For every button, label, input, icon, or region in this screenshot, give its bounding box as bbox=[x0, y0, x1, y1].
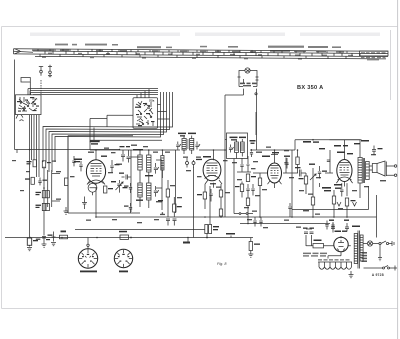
tone cap C54 bbox=[318, 166, 327, 187]
voltage selector labels bbox=[362, 252, 368, 262]
resistor R5 bbox=[46, 191, 49, 198]
dial scale band bbox=[14, 49, 389, 59]
output transformer T2 bbox=[354, 140, 369, 198]
V2 cathode parts bbox=[197, 184, 213, 209]
oscillator coil L11 bbox=[161, 150, 164, 178]
tone pot bbox=[309, 164, 316, 185]
svg-text:S2a: S2a bbox=[149, 99, 155, 103]
earth terminal bbox=[48, 65, 52, 77]
bleed-through ghost row bbox=[30, 33, 380, 37]
IF2 side labels bbox=[250, 140, 256, 144]
capacitor C4 bbox=[38, 178, 47, 186]
S1 feet bbox=[16, 115, 24, 121]
svg-text:A 9728: A 9728 bbox=[372, 273, 384, 277]
V4 cathode bits bbox=[340, 183, 347, 196]
mains switch and plug bbox=[364, 241, 395, 261]
padder capacitor C15 bbox=[119, 173, 131, 180]
rail resistor R51 bbox=[119, 231, 132, 240]
HT supply line bbox=[90, 140, 360, 150]
capacitor C8 bbox=[79, 161, 82, 171]
rectifier tube V5 UY41 bbox=[334, 231, 348, 256]
cathode ground arrows bbox=[337, 202, 357, 206]
left bottom cluster C90 bbox=[27, 238, 40, 251]
det bottom resistor bbox=[246, 196, 249, 217]
trimmer C16 bbox=[154, 163, 159, 174]
resistor R29 bbox=[311, 184, 314, 217]
triode grid circle bbox=[88, 183, 97, 195]
oscillator coil L9 bbox=[138, 183, 142, 197]
resistor R1 bbox=[27, 160, 37, 167]
AVC caps bbox=[246, 184, 254, 196]
AF line to V3 bbox=[253, 112, 267, 173]
aerial coil unit S1 bbox=[16, 95, 42, 115]
cathode resistor R9 bbox=[104, 186, 114, 193]
IF1 trimmers bbox=[176, 142, 200, 150]
dial tick marks bbox=[38, 49, 352, 59]
S2 box side stubs bbox=[158, 105, 170, 120]
bypass capacitor C98 with ground bbox=[46, 232, 56, 246]
IF transformer 1 bbox=[178, 133, 196, 154]
IF amp tube V2 UF41 bbox=[196, 150, 222, 188]
grid resistor R8 bbox=[65, 178, 68, 186]
rail component C97 bbox=[60, 231, 68, 239]
svg-text:Fig. 8: Fig. 8 bbox=[217, 262, 227, 266]
oscillator coil unit S2 bbox=[133, 98, 158, 128]
upper chassis rail bbox=[68, 136, 140, 213]
coupling capacitor C52 bbox=[292, 167, 306, 177]
heater labels bbox=[303, 253, 350, 261]
oscillator coil L10 bbox=[147, 183, 151, 200]
detector cluster bbox=[237, 156, 251, 172]
padder C19 bbox=[124, 203, 132, 213]
aerial lead-in bbox=[39, 67, 43, 95]
loudspeaker bbox=[369, 161, 385, 176]
rail junction dots bbox=[220, 216, 348, 218]
bias resistor R53 bbox=[248, 238, 260, 258]
detector return wire bbox=[234, 159, 253, 215]
dropper resistor to fig8 bbox=[205, 186, 219, 238]
grid stopper cluster bbox=[322, 150, 342, 191]
valve socket B2 UL41 bbox=[114, 249, 132, 272]
det/AF tube V3 UAF42 bbox=[262, 150, 290, 188]
PSU fuse resistor R56 bbox=[306, 240, 329, 248]
rail y229 bbox=[75, 229, 205, 231]
dropper cluster bbox=[225, 79, 257, 217]
dial right table text bbox=[361, 52, 386, 60]
IF2 trimmer caps bbox=[250, 149, 253, 157]
mixer tube V1 UCH42 bbox=[74, 150, 107, 187]
junction dots bbox=[29, 139, 314, 238]
main smoothing rail bbox=[5, 237, 253, 239]
oscillator coil L8 bbox=[147, 155, 151, 172]
V2 screen resistor bbox=[219, 184, 222, 209]
IF1 return vertical bbox=[176, 150, 194, 238]
IF1 secondary circles bbox=[186, 158, 196, 168]
nested band-switch loop wires bbox=[43, 92, 173, 172]
dial lamp circuit bbox=[238, 68, 259, 87]
resistor R2 bbox=[42, 161, 51, 168]
decoupling cap C55 bbox=[288, 203, 291, 217]
aerial input step wire bbox=[15, 60, 31, 150]
svg-text:BX 350 A: BX 350 A bbox=[297, 85, 323, 91]
oscillator coil L7 bbox=[138, 155, 142, 170]
AF grid resistor R28 bbox=[299, 173, 308, 194]
osc resistors right bbox=[166, 180, 176, 217]
socket B1 top pin terminal bbox=[87, 238, 89, 247]
osc caps bottom bbox=[166, 219, 177, 226]
label 1.7k bbox=[226, 233, 235, 238]
left drop wires bbox=[17, 115, 60, 238]
dial scale text specks bbox=[32, 44, 353, 60]
PSU connecting wires bbox=[328, 246, 351, 259]
screen bypass C10 bbox=[110, 160, 119, 173]
padder C18 bbox=[124, 183, 132, 193]
AF extra parts bbox=[285, 150, 299, 173]
AVC line bbox=[15, 149, 114, 151]
PSU top caps bbox=[329, 220, 349, 233]
pot top cap bbox=[120, 146, 131, 163]
detector resistor R22 bbox=[235, 182, 244, 198]
V4 cathode resistor bbox=[345, 198, 355, 217]
V3 cathode resistor bbox=[258, 173, 261, 217]
PSU wiring left bbox=[306, 229, 312, 246]
V4 grid resistor bbox=[332, 190, 335, 217]
plate supply line bbox=[303, 140, 362, 150]
left bottom cluster C91 bbox=[42, 233, 53, 247]
resistor R7 bbox=[46, 203, 49, 210]
grid components under tube bbox=[82, 187, 96, 217]
38 label bbox=[183, 238, 190, 244]
caps under AF bbox=[325, 221, 334, 230]
valve socket B1 UCH42 bbox=[78, 247, 97, 273]
output tube V4 UL41 bbox=[336, 140, 353, 187]
detector resistor R21 bbox=[246, 174, 256, 182]
mains transformer T3 bbox=[352, 226, 363, 269]
ground tap bbox=[64, 207, 69, 214]
resistor R4 bbox=[36, 191, 46, 198]
dial extra ticks bbox=[50, 49, 360, 56]
right feed vertical bbox=[292, 186, 377, 238]
capacitor C60 bbox=[372, 146, 383, 156]
inner loop rectangle bbox=[68, 115, 162, 213]
osc box top pigtails bbox=[137, 89, 149, 98]
IF transformer 2 bbox=[225, 133, 248, 159]
capacitor C7 bbox=[72, 156, 75, 166]
dial scale right table box bbox=[360, 51, 389, 56]
AVC rail bbox=[240, 216, 330, 224]
decoupling caps on rail bbox=[253, 217, 262, 227]
mains lead bbox=[364, 266, 398, 271]
top bus wires bbox=[28, 89, 158, 95]
speaker terminals bbox=[386, 162, 397, 177]
PSU electrolytic cans bbox=[303, 228, 314, 242]
volume control pot bbox=[111, 150, 128, 193]
HT rail bbox=[96, 216, 377, 218]
V3 anode load cluster bbox=[283, 150, 292, 217]
resistor R3 bbox=[25, 177, 34, 184]
screen feed resistor bbox=[219, 209, 222, 216]
heater winding comb bbox=[318, 262, 354, 278]
resistor R6 bbox=[36, 203, 46, 210]
scattered value labels bbox=[12, 145, 386, 229]
osc wiring bbox=[131, 150, 162, 212]
trimmer C17 bbox=[154, 186, 159, 197]
V1 label bbox=[90, 141, 100, 145]
